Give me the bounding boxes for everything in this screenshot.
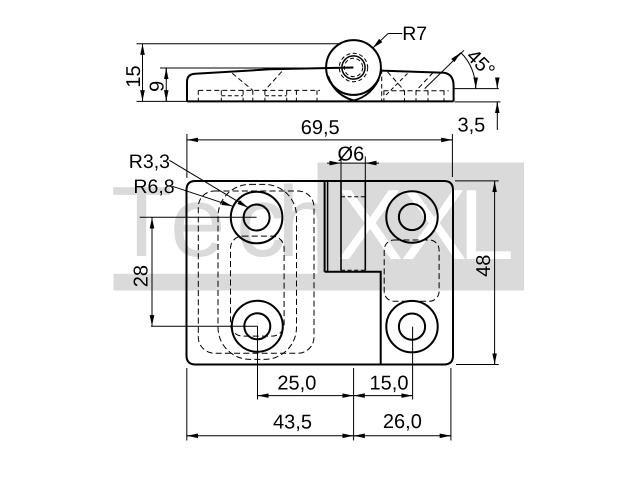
svg-text:48: 48: [473, 255, 495, 277]
svg-text:43,5: 43,5: [273, 411, 312, 433]
svg-text:R3,3: R3,3: [129, 151, 170, 173]
svg-text:3,5: 3,5: [457, 115, 485, 137]
svg-text:15,0: 15,0: [370, 372, 409, 394]
svg-text:28: 28: [131, 265, 153, 287]
svg-text:45°: 45°: [462, 45, 499, 82]
svg-text:26,0: 26,0: [383, 411, 422, 433]
svg-text:25,0: 25,0: [277, 373, 316, 395]
svg-text:9: 9: [147, 81, 169, 92]
svg-text:R7: R7: [402, 23, 427, 45]
svg-text:Ø6: Ø6: [338, 144, 365, 166]
svg-text:15: 15: [123, 65, 145, 87]
svg-text:69,5: 69,5: [301, 117, 340, 139]
svg-text:R6,8: R6,8: [133, 176, 174, 198]
